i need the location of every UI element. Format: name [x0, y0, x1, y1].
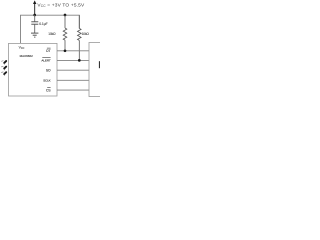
- svg-text:OT: OT: [46, 49, 51, 53]
- microcontroller box (clipped): [89, 43, 103, 97]
- resistor R1 10k pull-up on OT: [63, 15, 67, 51]
- svg-text:0.1µF: 0.1µF: [39, 22, 47, 26]
- svg-text:MAX6662: MAX6662: [20, 54, 34, 58]
- wire cap lead: [34, 15, 36, 21]
- svg-text:ALERT: ALERT: [41, 59, 50, 63]
- capacitor C1 0.1uF: [31, 21, 38, 23]
- svg-text:CS: CS: [46, 88, 51, 92]
- svg-text:10kΩ: 10kΩ: [48, 32, 56, 36]
- resistor R2 10k pull-up on ALERT: [78, 15, 82, 60]
- wire SCLK: [57, 79, 89, 81]
- node B junction dot (rail / R1): [64, 14, 67, 17]
- wire cap to ground: [34, 24, 36, 33]
- wire OT: [57, 50, 89, 52]
- svg-text:10kΩ: 10kΩ: [82, 32, 90, 36]
- junction dot R1/OT: [64, 49, 67, 52]
- svg-text:VCC = +3V TO +5.5V: VCC = +3V TO +5.5V: [37, 3, 85, 9]
- wire CS: [57, 89, 89, 91]
- node A junction dot: [33, 14, 36, 17]
- svg-text:SCLK: SCLK: [43, 79, 52, 83]
- IC U1 MAX6662 box: [9, 43, 58, 96]
- svg-text:VCC: VCC: [19, 46, 25, 51]
- svg-text:SO: SO: [46, 68, 51, 72]
- ground: [31, 33, 38, 37]
- wire ALERT: [57, 59, 89, 61]
- ground hatch marks on left edge: [1, 61, 6, 76]
- node VCC supply rail: [21, 15, 80, 43]
- junction dot R2/ALERT: [78, 59, 81, 62]
- VCC arrow: [33, 0, 36, 14]
- clipped text in microcontroller box: [99, 61, 100, 68]
- wire SO: [57, 69, 89, 71]
